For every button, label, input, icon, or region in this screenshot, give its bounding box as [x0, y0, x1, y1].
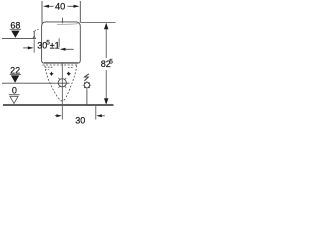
- dimension 30.5±1: right arrow: [60, 48, 74, 51]
- level label 0 underline: [9, 94, 20, 96]
- level marker 0 open triangle: [10, 96, 18, 103]
- dimension 40: left extension bar: [41, 1, 43, 24]
- level line 68: [2, 38, 36, 40]
- dimension 30 bottom: right arrow: [96, 114, 105, 117]
- dimension 82.5: bottom arrow: [104, 98, 108, 105]
- dimension 30.5±1: left extension line: [33, 39, 35, 52]
- svg-text:0: 0: [12, 85, 17, 95]
- drain circle diagonal ticks: [58, 78, 66, 88]
- svg-text:30: 30: [75, 116, 85, 126]
- dimension 40: right extension bar: [79, 1, 81, 22]
- cistern body outline: [42, 22, 81, 63]
- pan left dashed contour: [45, 66, 58, 98]
- floor line: [3, 104, 114, 106]
- dimension 82.5: vertical line lower segment: [105, 70, 107, 98]
- dimension 82.5: top arrow: [104, 23, 108, 30]
- cistern lid seam line: [57, 23, 80, 25]
- power connection box symbol: [83, 81, 91, 89]
- dimension 30.5±1: left arrow: [23, 46, 33, 49]
- level label 22 underline: [10, 73, 21, 75]
- dimension 30.5±1: value label: [37, 39, 59, 50]
- level line 22: [2, 82, 70, 84]
- positioning star cross left: [49, 72, 53, 76]
- pan inner rim dashed segment right: [68, 66, 74, 68]
- svg-text:5: 5: [109, 59, 113, 66]
- electrical flash symbol: [84, 74, 89, 81]
- pan upper dashed line: [43, 64, 78, 66]
- level marker 22 filled triangle: [11, 75, 19, 82]
- level label 68 underline: [10, 28, 21, 30]
- level marker 68 filled triangle: [11, 31, 19, 38]
- power connection drop line: [86, 90, 88, 105]
- positioning star cross right: [67, 72, 71, 76]
- pan inner rim dashed segment left: [45, 66, 53, 68]
- dimension 30 bottom: left extension line: [61, 106, 63, 120]
- pan right dashed contour: [66, 66, 77, 98]
- outlet centre line: [61, 63, 63, 104]
- dimension 40: left arrow: [43, 5, 54, 8]
- dimension 30.5±1: right extension line: [58, 38, 60, 47]
- dimension 30 bottom: left arrow: [55, 114, 62, 117]
- cistern bottom edge reinforcement: [44, 62, 78, 64]
- drain connection circle symbol: [58, 79, 66, 87]
- svg-text:±1: ±1: [50, 40, 60, 50]
- svg-text:22: 22: [10, 65, 20, 75]
- pan seat dashed segment: [45, 69, 51, 71]
- dimension 82.5: vertical line upper segment: [105, 29, 107, 58]
- cistern centre tick: [62, 18, 64, 24]
- water supply stub symbol: [33, 29, 39, 39]
- dimension 30 bottom: right extension line: [95, 106, 97, 120]
- dimension 82.5: value label: [101, 59, 113, 69]
- dimension 40: right arrow: [68, 5, 80, 8]
- pan bottom dashed arc: [58, 98, 66, 101]
- svg-text:40: 40: [55, 2, 65, 12]
- dimension 82.5: top extension line: [80, 21, 115, 23]
